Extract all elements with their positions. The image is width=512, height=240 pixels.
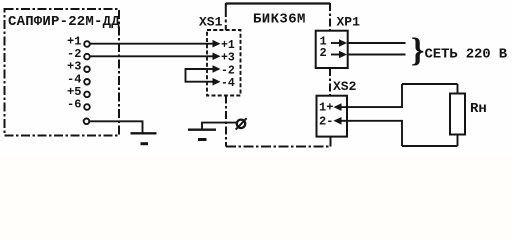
svg-text:СЕТЬ 220 В: СЕТЬ 220 В [425,47,508,63]
load loop top rail [402,83,458,85]
wire pin7 to ground [89,121,142,132]
svg-text:XS2: XS2 [333,79,357,94]
svg-text:1+: 1+ [319,101,333,115]
resistor Rн body [450,94,465,135]
svg-text:-2: -2 [221,64,235,77]
svg-text:БИК36М: БИК36М [253,12,306,28]
svg-text:-6: -6 [67,98,81,112]
pin +1 [67,35,90,49]
connector XP1 (solid box) [316,31,348,68]
БИК36М enclosure top edge [226,2,330,4]
pin +3 [67,60,90,74]
БИК36М enclosure left edge (to XS1) [225,3,227,30]
XS1 pin -4 [207,77,235,90]
XS2 pin 1+ [319,101,347,115]
svg-text:-4: -4 [221,77,235,90]
pin 7 (unlabelled shield terminal) [84,119,90,125]
wire XP1 pin2 to mains [348,54,406,56]
wire XP1 pin1 to mains [348,42,406,44]
wire XS2 pin1 to load [347,84,402,107]
pin +5 [67,85,90,99]
svg-text:2-: 2- [319,114,333,128]
XS1 pin -2 [207,64,235,77]
wire XS2 pin2 to load [347,121,402,146]
БИК36М enclosure right edge (to XP1) [329,3,331,31]
wire pin -2 to XS1 pin +3 [90,55,207,57]
connector XS1 (dashed box) [207,30,241,96]
БИК36М enclosure edge below XS1 [225,96,227,147]
svg-text:САПФИР-22М-ДД: САПФИР-22М-ДД [8,14,120,30]
XS1 pin +1 [207,39,235,52]
БИК36М enclosure riser to XS2 [330,136,332,147]
ground (left) [131,133,157,143]
svg-text:Rн: Rн [470,101,487,117]
jumper wire XS1 -2 to -4 [186,69,208,82]
XS1 pin +3 [207,52,235,65]
pin -2 [67,47,90,61]
paper background [0,0,512,157]
XP1 pin 1 [320,35,348,49]
XS2 pin 2- [319,114,347,128]
wire pin +1 to XS1 pin +1 [90,43,207,45]
pin -6 [67,98,90,112]
device box САПФИР-22М-ДД (dash-dot outline) [5,9,120,136]
connector XS2 (solid box) [317,96,348,137]
corpus terminal symbol (circle with slash) [236,118,247,129]
БИК36М enclosure edge XP1 to XS2 [329,68,331,96]
ground (middle) [188,130,216,140]
svg-text:XP1: XP1 [337,15,361,30]
svg-text:+3: +3 [221,52,235,65]
svg-text:2: 2 [320,46,327,60]
svg-text:+1: +1 [221,39,235,52]
svg-text:XS1: XS1 [199,15,223,30]
XP1 pin 2 [320,46,348,60]
БИК36М enclosure bottom edge [226,146,331,148]
pin -4 [67,72,90,86]
svg-text:}: } [411,32,424,69]
chassis wire (ground to corpus terminal) [202,123,236,129]
load loop bottom rail [402,145,458,147]
resistor Rн leads [457,84,459,94]
